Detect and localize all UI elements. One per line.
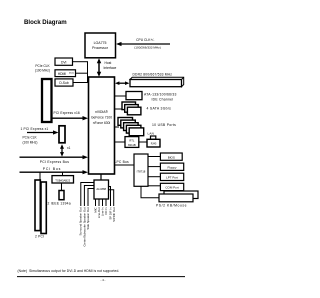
svg-text:8211B: 8211B: [128, 143, 136, 147]
svg-text:x1: x1: [67, 146, 71, 150]
svg-text:4 SATA 3Gb/s: 4 SATA 3Gb/s: [147, 107, 172, 111]
svg-text:(Note) Simultaneous output fo: (Note) Simultaneous output for DVI-D and…: [18, 269, 120, 273]
svg-text:COM Port: COM Port: [165, 186, 179, 190]
svg-text:Side Speaker Out: Side Speaker Out: [86, 207, 90, 229]
svg-text:BIOS: BIOS: [168, 155, 175, 159]
svg-text:CPU CLK+/-: CPU CLK+/-: [136, 38, 154, 42]
svg-text:ALC888: ALC888: [96, 187, 106, 191]
svg-text:1 PCI Express x1: 1 PCI Express x1: [21, 127, 49, 131]
svg-text:Host: Host: [105, 61, 112, 65]
svg-text:Floppy: Floppy: [167, 166, 177, 170]
svg-text:Interface: Interface: [104, 66, 117, 70]
svg-text:(100 MHz): (100 MHz): [35, 69, 50, 73]
svg-text:IT8718: IT8718: [137, 169, 146, 173]
svg-text:LPC Bus: LPC Bus: [115, 160, 130, 164]
svg-text:RJ45: RJ45: [151, 143, 157, 146]
svg-text:PCIe CLK: PCIe CLK: [23, 136, 38, 140]
svg-text:S/PDIF Out: S/PDIF Out: [112, 207, 116, 222]
svg-text:Processor: Processor: [92, 46, 109, 50]
svg-text:10 USB Ports: 10 USB Ports: [152, 123, 176, 127]
svg-text:IDE Channel: IDE Channel: [152, 97, 174, 101]
svg-text:(100 MHz): (100 MHz): [23, 140, 38, 144]
svg-text:nForce 630i: nForce 630i: [93, 121, 111, 125]
svg-text:(100/266/333 MHz): (100/266/333 MHz): [134, 45, 160, 49]
svg-text:LGA775: LGA775: [94, 41, 107, 45]
svg-text:LAN: LAN: [148, 131, 155, 135]
svg-text:- 4 -: - 4 -: [101, 278, 106, 282]
svg-text:DDR2 800/667/533 MHz: DDR2 800/667/533 MHz: [133, 73, 173, 77]
svg-text:RTL: RTL: [129, 138, 135, 142]
svg-text:(Note): (Note): [69, 71, 74, 74]
svg-text:PCI Express Bus: PCI Express Bus: [40, 160, 69, 164]
svg-text:ATA-133/100/66/33: ATA-133/100/66/33: [144, 93, 177, 97]
svg-text:DVI: DVI: [61, 60, 67, 64]
svg-text:PCI Bus: PCI Bus: [43, 167, 61, 171]
svg-text:nVIDIA®: nVIDIA®: [95, 110, 108, 114]
svg-text:PCI Express x16: PCI Express x16: [54, 111, 80, 115]
svg-text:2 IEEE 1394a: 2 IEEE 1394a: [48, 201, 71, 205]
svg-text:PS/2 KB/Mouse: PS/2 KB/Mouse: [156, 203, 187, 207]
svg-text:GeForce 7100: GeForce 7100: [91, 115, 112, 119]
svg-text:TSB43AB23: TSB43AB23: [55, 178, 70, 182]
svg-text:2 PCI: 2 PCI: [35, 235, 44, 239]
svg-text:PCIe CLK: PCIe CLK: [35, 64, 50, 68]
svg-text:Block Diagram: Block Diagram: [24, 19, 67, 26]
svg-text:CD In: CD In: [104, 207, 108, 215]
svg-text:LPT Port: LPT Port: [166, 176, 178, 180]
svg-text:HDMI: HDMI: [58, 72, 67, 76]
svg-text:D-Sub: D-Sub: [59, 81, 69, 85]
